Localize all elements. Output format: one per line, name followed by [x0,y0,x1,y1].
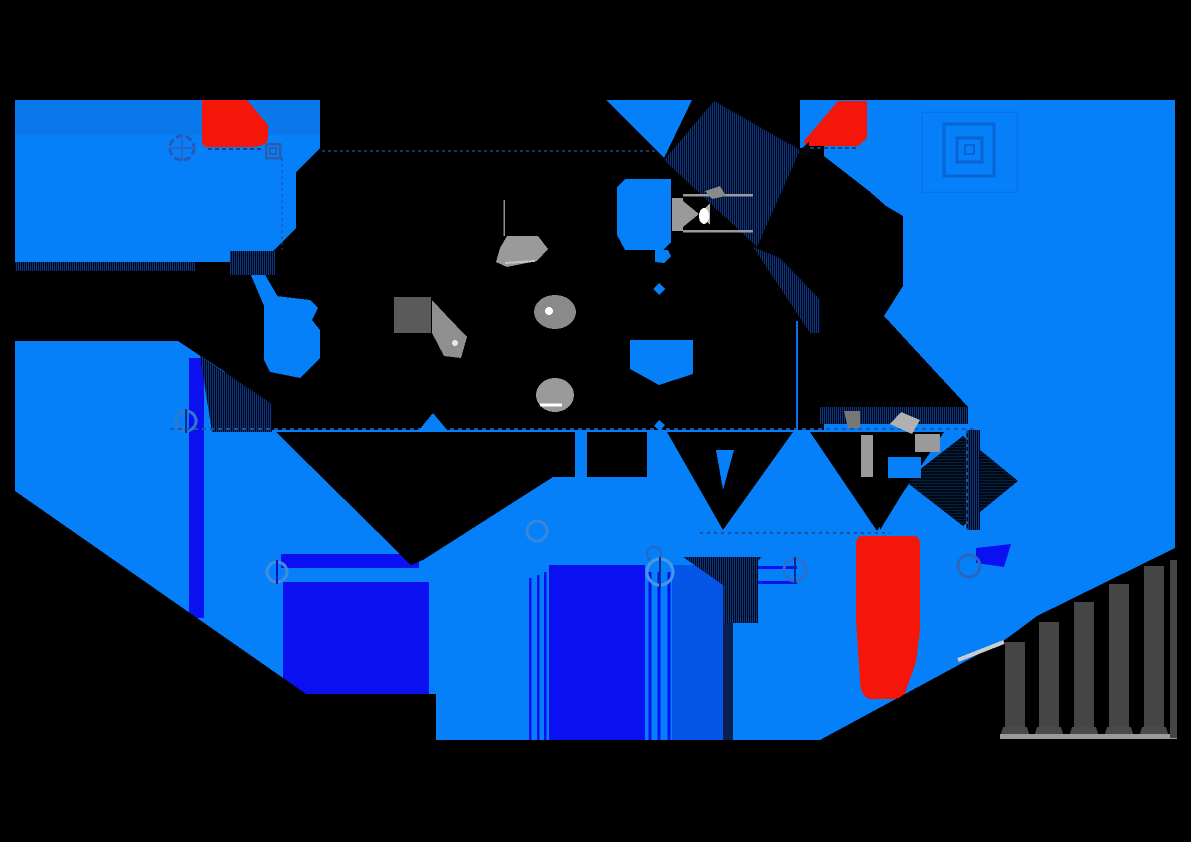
pillar base line [1000,734,1177,739]
capacitor C2b stripe lines left [530,572,545,740]
node blue bumps [419,413,447,430]
capacitor C13 gray blob top [705,186,726,199]
wire striped column bottom-middle [724,560,758,623]
transistor Q2 black triangle [276,432,417,565]
resistor R1 red top-left [202,100,268,147]
capacitor C4 dark blue column [723,583,733,740]
wedge blue top-middle [606,100,692,158]
wire striped band below Q1 [820,407,968,424]
board outline [15,100,1177,740]
capacitor C8 dot [452,340,458,346]
op-amp U3 gray capsule [672,194,753,233]
capacitor C6 gray blob [534,295,576,329]
pillar P4 [1104,584,1134,737]
wire bright vertical line [796,321,798,430]
wire blue connector strip [248,266,278,306]
wire dashed line mid [170,428,975,430]
capacitor C1 deep blue block [283,582,429,694]
capacitor C11 gray column [915,434,940,452]
transistor Q4 black triangle [667,432,793,530]
node blue column middle [647,432,667,523]
capacitor C3 medium blue column [672,565,723,740]
wire white streak [958,642,1004,660]
diode D2 base triangle [880,433,910,530]
transistor Q1 black region right of red [820,153,968,424]
wire funnel striped wedge [683,557,762,585]
transistor Q3 black region middle [411,432,647,565]
node marker M3 [267,560,287,584]
capacitor C2 stripe lines [650,572,669,740]
diode D2 black diamond right [905,436,1018,526]
wire dashed vertical [966,430,968,530]
node apex diamond [654,420,665,431]
resistor R2 red top-right [804,101,867,146]
op-amp U2 concentric squares icon [922,112,1017,192]
capacitor C2 deep blue column [549,565,645,740]
capacitor C8 dark gray block [394,297,431,333]
sky blue region right [824,100,1175,740]
wire navy strip right of node A [230,251,275,275]
wire navy strip under node A [15,262,195,271]
wire deep blue band left [189,358,204,618]
node blue notch small [655,250,671,263]
resistor R3 red bar [856,536,920,699]
pillar P6 partial [1170,560,1177,738]
capacitor C6 highlight [545,307,553,315]
node blue notch in D2 [888,457,921,478]
node blue notch in Q4 [716,450,734,490]
transistor Q5 black triangle [810,432,944,531]
pillar P3 [1069,602,1099,737]
capacitor C12 gray bit [844,411,860,428]
wire horizontal deep line a [737,566,797,569]
wire striped column right [966,430,980,530]
node blue pentagon lower [630,340,693,385]
capacitor C9 gray column [861,435,873,477]
node blue diamond small [653,283,665,295]
capacitor C10 gray diamond [890,412,920,434]
node marker M8 [958,555,980,577]
node marker M6 [647,557,673,587]
diode D1 striped diamond [664,101,800,247]
node bowtie at diamond tip [790,142,798,156]
node blue sliver left of R2 [800,100,840,148]
ground black bottom-left [15,491,436,740]
wire dark dashes under R2 [810,147,858,149]
wire dashed line top [322,150,658,152]
pillar P2 [1034,622,1064,737]
sea blue region bottom band [15,430,1005,740]
node B blue region left-middle [15,341,225,434]
wire horizontal deep line b [735,581,797,584]
pillar P1 [1000,642,1030,737]
node marker M5 [647,547,661,561]
node marker M4 [527,521,547,541]
wire striped band diagonal [753,247,852,333]
wire dark dashes under R1 [208,148,264,150]
wire dashed vertical under S1 [281,158,283,250]
capacitor C5 highlight [505,261,535,263]
node blue pentagon upper [617,179,671,250]
node A blue region top-left [15,100,320,262]
wire deep blue wedge right [976,544,1011,567]
node marker M1 [169,135,195,161]
capacitor C1 top plate [281,554,419,568]
node blue column gap [575,432,587,477]
node W1 blue wedge [264,296,320,378]
node marker M2 [176,409,196,433]
wire gray vertical line [503,200,505,236]
capacitor C7 highlight [540,404,562,407]
node A top strip [15,100,320,135]
wire navy wedge middle-left [200,356,272,432]
pillar P5 [1139,566,1169,737]
ground black bottom-right [820,549,1177,740]
node marker M7 [784,557,806,583]
op-amp U1 concentric squares icon [266,144,280,158]
capacitor C7 gray blob [536,378,574,412]
wire dashed line low [700,532,890,534]
capacitor C5 gray blob [496,236,548,267]
capacitor C8 wedge [432,300,467,358]
